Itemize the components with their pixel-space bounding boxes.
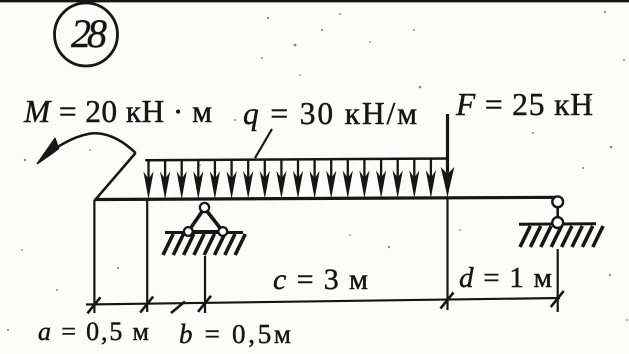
q leader line xyxy=(255,129,272,158)
svg-text:M = 20 кН · м: M = 20 кН · м xyxy=(23,94,212,129)
extension line at beam left end (x=94) xyxy=(93,200,95,314)
moment link diagonal line to beam end xyxy=(96,153,135,199)
svg-text:c = 3 м: c = 3 м xyxy=(273,263,368,296)
pin support A: triangle linkage xyxy=(188,208,223,232)
svg-text:q = 30 кН/м: q = 30 кН/м xyxy=(243,96,417,131)
svg-text:d = 1 м: d = 1 м xyxy=(459,262,552,294)
problem number circle 28 xyxy=(55,3,118,66)
extension line at F (x=447) xyxy=(446,198,448,310)
svg-text:b = 0,5м: b = 0,5м xyxy=(179,319,291,349)
extension line at load start (x=147) xyxy=(146,200,148,313)
svg-text:a = 0,5 м: a = 0,5 м xyxy=(38,317,149,346)
extension line at support B (x=557) xyxy=(557,249,559,312)
distributed load q: arrows xyxy=(143,159,452,200)
pin support A: ground hatching xyxy=(163,234,245,255)
dimension line xyxy=(86,298,560,305)
roller support B: ground hatching xyxy=(520,226,603,247)
roller support B: ground line xyxy=(519,222,596,226)
stray tick slash between b ticks xyxy=(171,302,185,314)
roller support B: link and hinge circles xyxy=(552,196,563,228)
distributed load q: top line xyxy=(145,159,447,161)
top border line xyxy=(0,0,629,2)
force F arrow xyxy=(441,114,455,197)
pin support A: ground line xyxy=(165,231,243,234)
svg-text:28: 28 xyxy=(71,11,107,56)
moment arc arrow M (counterclockwise) xyxy=(46,133,136,156)
svg-text:F = 25 кН: F = 25 кН xyxy=(455,87,593,122)
support A center line to dimension line xyxy=(204,256,206,313)
pin support A: hinge circles xyxy=(184,203,227,236)
dimension tick slashes xyxy=(87,291,563,313)
beam xyxy=(94,197,560,199)
